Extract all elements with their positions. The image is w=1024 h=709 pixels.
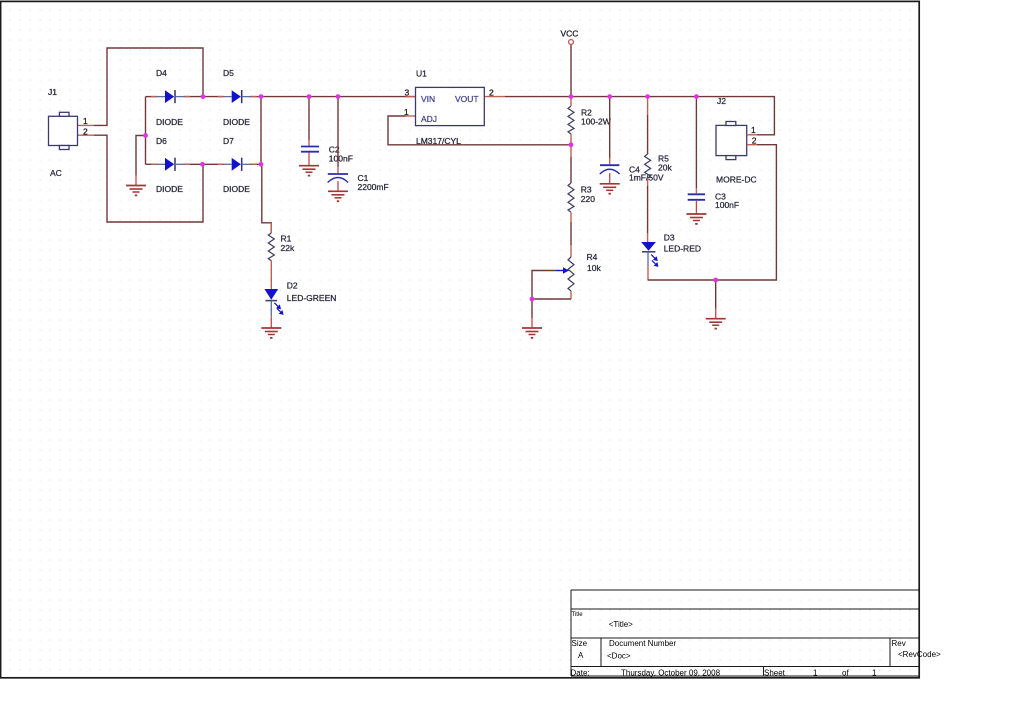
svg-text:Thursday, October 09, 2008: Thursday, October 09, 2008 (621, 669, 721, 678)
wire J1 pin2 to bridge bottom node (78, 135, 204, 222)
svg-text:1: 1 (83, 116, 88, 126)
svg-text:1: 1 (751, 125, 756, 135)
title block (571, 590, 919, 676)
wire node to D7 anode (203, 163, 224, 165)
capacitor C3 (688, 194, 705, 204)
svg-text:VOUT: VOUT (455, 94, 479, 104)
wire J2 pin1 stub (747, 134, 757, 136)
svg-text:A: A (578, 651, 584, 660)
svg-text:Rev: Rev (892, 639, 906, 648)
LED D3 (641, 242, 658, 280)
junction node bottom ground (713, 278, 718, 283)
ground at bottom rail (706, 309, 726, 330)
wire U1 ADJ feedback loop (388, 116, 571, 145)
svg-text:<RevCode>: <RevCode> (898, 650, 941, 659)
wire C1 branch (337, 97, 339, 173)
junction node C1 tap (336, 94, 341, 99)
svg-text:1: 1 (872, 669, 877, 678)
resistor R3 (568, 145, 574, 222)
wire bridge ground branch (136, 136, 146, 176)
wire bridge right vertical (260, 97, 262, 165)
svg-text:U1: U1 (416, 69, 427, 79)
svg-text:DIODE: DIODE (223, 184, 250, 194)
svg-text:2: 2 (83, 127, 88, 137)
junction node VCC rail (569, 94, 574, 99)
svg-text:D5: D5 (223, 68, 234, 78)
svg-text:Date:: Date: (571, 669, 590, 678)
junction node ADJ-R2-R3 (569, 142, 574, 147)
wire J1 pin1 to bridge top node (78, 48, 204, 125)
junction node D5 out (259, 94, 264, 99)
svg-text:2200mF: 2200mF (358, 182, 389, 192)
svg-text:3: 3 (405, 88, 410, 98)
svg-text:Sheet: Sheet (764, 669, 786, 678)
wire C4 branch (609, 97, 611, 165)
svg-text:D6: D6 (156, 136, 167, 146)
svg-text:LM317/CYL: LM317/CYL (416, 136, 461, 146)
svg-text:1: 1 (813, 669, 818, 678)
diode D4 (151, 90, 190, 103)
wire U1 VOUT rail to J2 pin1 (484, 97, 774, 135)
junction node bridge ground (143, 133, 148, 138)
title block text (571, 612, 942, 678)
wire D5 cathode rail to U1 VIN (250, 96, 416, 98)
wire R5 to D3 (647, 186, 649, 242)
svg-text:VCC: VCC (561, 29, 579, 39)
svg-text:100-2W: 100-2W (581, 117, 611, 127)
svg-text:Size: Size (572, 639, 588, 648)
svg-text:<Title>: <Title> (609, 620, 633, 629)
ground at R4 (522, 318, 542, 339)
svg-text:MORE-DC: MORE-DC (716, 175, 757, 185)
resistor R2 (568, 97, 574, 145)
wire C3 branch (695, 97, 697, 194)
wire J2 pin2 to bottom rail (648, 145, 777, 280)
wire bridge left vertical D4 anode to D6 anode (145, 97, 147, 165)
svg-text:D3: D3 (664, 233, 675, 243)
svg-text:100nF: 100nF (329, 154, 353, 164)
ground at bridge (126, 176, 146, 197)
svg-text:220: 220 (581, 194, 595, 204)
svg-text:J1: J1 (48, 87, 57, 97)
wire R4 bottom to wiper (532, 271, 571, 300)
wire D6 cathode to node (184, 163, 203, 165)
svg-text:10k: 10k (587, 263, 601, 273)
wire D4 cathode to node (184, 96, 204, 98)
wire bottom node to ground (715, 280, 717, 309)
svg-text:Document Number: Document Number (609, 639, 676, 648)
svg-text:DIODE: DIODE (223, 117, 250, 127)
svg-text:AC: AC (50, 168, 62, 178)
wire bottom node to R1 (262, 164, 272, 233)
svg-text:D7: D7 (223, 136, 234, 146)
svg-text:D2: D2 (287, 281, 298, 291)
ground at C1 (328, 181, 348, 202)
svg-text:D4: D4 (156, 68, 167, 78)
wire R4 node to ground (531, 299, 533, 318)
svg-text:LED-GREEN: LED-GREEN (287, 293, 337, 303)
diode D6 (151, 158, 190, 171)
junction node R4 wiper (530, 297, 535, 302)
junction node C3 tap (694, 94, 699, 99)
ground at D2 (261, 318, 281, 339)
svg-text:Title: Title (572, 612, 584, 618)
svg-text:<Doc>: <Doc> (607, 652, 631, 661)
svg-text:of: of (842, 669, 849, 678)
svg-text:R1: R1 (281, 234, 292, 244)
svg-text:100nF: 100nF (715, 200, 739, 210)
R4 wiper arrow (556, 267, 569, 274)
svg-text:ADJ: ADJ (421, 114, 437, 124)
capacitor C2 (301, 147, 319, 156)
wire D7 cathode to right node (250, 163, 261, 165)
svg-text:VIN: VIN (421, 94, 435, 104)
junction node C4 tap (607, 94, 612, 99)
svg-text:DIODE: DIODE (156, 184, 183, 194)
LED D2 (264, 289, 282, 318)
svg-text:1: 1 (404, 107, 409, 117)
connector J2 (716, 122, 747, 160)
junction node D4-D5 (201, 94, 206, 99)
connector J1 (49, 112, 78, 149)
wire to D6 anode (146, 163, 158, 165)
svg-text:R4: R4 (587, 252, 598, 262)
svg-text:2: 2 (489, 88, 494, 98)
svg-text:DIODE: DIODE (156, 117, 183, 127)
ground at C3 (686, 204, 706, 225)
capacitor C4 polarized (600, 165, 620, 174)
junction node D6-D7 (200, 162, 205, 167)
capacitor C1 polarized (328, 174, 349, 183)
wire node to D5 anode (203, 96, 224, 98)
wire U1 pin3 stub (406, 96, 416, 98)
diode D7 (218, 158, 257, 171)
resistor R1 (268, 223, 274, 289)
junction node C2 tap (307, 94, 312, 99)
power VCC (561, 29, 579, 97)
ground at C4 (600, 174, 620, 195)
diode D5 (218, 90, 257, 103)
svg-text:R3: R3 (581, 185, 592, 195)
regulator U1 LM317 (416, 87, 485, 125)
svg-text:22k: 22k (281, 243, 295, 253)
wire to D4 anode (146, 96, 158, 98)
wire C2 branch (308, 97, 310, 146)
svg-text:20k: 20k (658, 163, 672, 173)
ground at C2 (299, 156, 319, 177)
resistor R4 potentiometer (568, 222, 574, 299)
resistor R5 (645, 97, 651, 186)
svg-text:LED-RED: LED-RED (664, 244, 701, 254)
junction node R1 tap (259, 162, 264, 167)
junction node R5 tap (645, 94, 650, 99)
svg-text:J2: J2 (717, 96, 726, 106)
